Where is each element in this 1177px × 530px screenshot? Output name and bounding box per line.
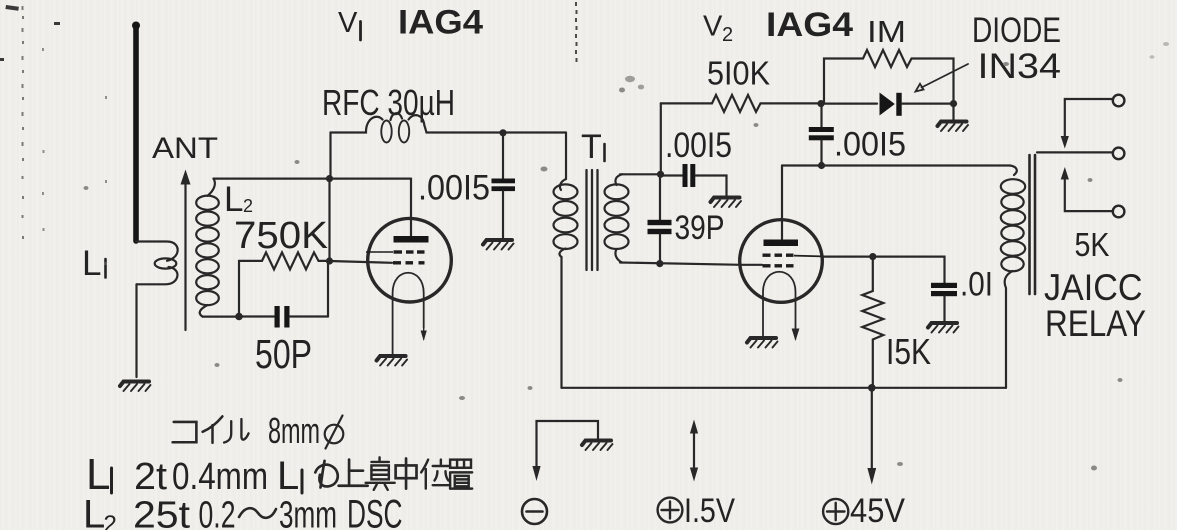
wire RFC to T1 <box>565 133 567 180</box>
svg-text:I.5V: I.5V <box>684 492 735 530</box>
wire 510K drop <box>660 103 662 174</box>
wire T1 sec bottom to V2 grid <box>620 263 762 265</box>
svg-text:L: L <box>224 180 243 219</box>
wire plate drop <box>410 179 412 236</box>
wire V2 screen out <box>822 257 945 283</box>
svg-text:0.2: 0.2 <box>199 495 236 530</box>
antenna rod <box>132 22 140 242</box>
coil L1 <box>136 242 178 285</box>
V1 grid dashes row1 <box>366 251 425 253</box>
svg-text:JAICC: JAICC <box>1044 267 1143 308</box>
bottom note line1: coil 8mm dia (Japanese drawn) <box>173 416 249 442</box>
svg-text:.0I: .0I <box>960 266 993 304</box>
capacitor .01 <box>931 283 957 322</box>
svg-text:I5K: I5K <box>886 331 931 372</box>
wire T1 primary bottom to bus <box>560 257 562 388</box>
svg-text:ANT: ANT <box>152 132 218 165</box>
ANT arrow <box>181 170 191 331</box>
wire down to bypass cap <box>502 133 504 178</box>
svg-text:25t: 25t <box>133 495 190 530</box>
resistor 510K <box>661 95 821 112</box>
wire 50P right leg up <box>327 261 329 317</box>
svg-text:8mm: 8mm <box>268 410 320 451</box>
svg-text:T: T <box>581 128 602 166</box>
wire node down to grid node <box>328 179 330 261</box>
relay contacts <box>1037 95 1124 218</box>
node grid <box>326 257 333 264</box>
svg-text:L: L <box>83 493 105 530</box>
node screen/15K <box>869 253 876 260</box>
svg-text:.00I5: .00I5 <box>834 126 906 164</box>
coil L2 <box>196 179 219 317</box>
wire L2 top to plate node <box>214 178 412 180</box>
tube V2 envelope <box>740 220 823 303</box>
wire L1 to ground <box>135 284 137 377</box>
svg-text:DIODE: DIODE <box>972 11 1061 50</box>
transformer T1 primary <box>554 179 578 257</box>
node 39P bottom <box>656 260 663 267</box>
wave dash <box>239 508 276 518</box>
wire diode right to ground <box>952 104 954 120</box>
wire T1 sec top <box>620 173 661 175</box>
capacitor .0015 (grid series) <box>661 164 727 196</box>
diameter symbol <box>325 416 344 449</box>
ground (antenna) <box>120 382 151 392</box>
T1 core <box>587 170 598 270</box>
svg-text:0.4mm: 0.4mm <box>172 456 268 498</box>
node diode left <box>817 100 824 107</box>
V2 filament <box>763 272 799 341</box>
svg-text:L: L <box>277 454 299 498</box>
relay coil 5K <box>1001 166 1025 388</box>
node RFC / bypass cap <box>499 129 506 136</box>
wire 39P drop <box>659 174 661 220</box>
ground (B-) <box>582 441 613 451</box>
tube V1 envelope <box>368 218 452 302</box>
resistor 15K <box>862 257 883 388</box>
svg-text:39P: 39P <box>675 209 725 247</box>
capacitor .0015 (det) <box>809 104 834 166</box>
label +1.5V <box>658 498 683 523</box>
bottom bus wire <box>562 387 1007 389</box>
ground (grid cap) <box>711 198 742 208</box>
annotation arrow to diode <box>916 64 969 92</box>
svg-text:45V: 45V <box>850 492 905 530</box>
page fold dotted line top middle <box>575 2 578 62</box>
wire V2 plate drop <box>781 166 783 240</box>
svg-text:.00I5: .00I5 <box>665 126 732 165</box>
svg-text:RFC 30µH: RFC 30µH <box>322 82 455 123</box>
svg-text:2: 2 <box>243 196 253 216</box>
wire RFC left drop <box>329 133 331 179</box>
B- pickoff: ground wire <box>532 421 598 481</box>
node 15K bottom / 45V <box>868 384 876 392</box>
wire L2 bottom <box>203 316 240 318</box>
ground (diode) <box>938 122 969 132</box>
node diode right <box>950 100 957 107</box>
V1 plate <box>394 236 429 243</box>
svg-text:2: 2 <box>104 511 117 530</box>
node L2 bottom <box>235 313 243 321</box>
smudges <box>84 42 1170 471</box>
V1 grid dashes row2 <box>393 261 425 264</box>
node junction (grid top) <box>326 175 333 182</box>
svg-text:5K: 5K <box>1075 226 1110 263</box>
V1 filament <box>393 273 427 354</box>
label +45V <box>823 499 848 524</box>
svg-text:V: V <box>338 7 358 39</box>
ground (bypass cap) <box>483 240 514 250</box>
RFC choke <box>331 113 567 142</box>
V2 grid dashes row1 <box>763 255 823 256</box>
resistor 750K <box>239 252 330 269</box>
svg-text:IN34: IN34 <box>978 47 1062 86</box>
1.5V double arrow <box>690 420 698 482</box>
node sec top <box>657 171 664 178</box>
V2 plate <box>764 240 799 247</box>
svg-text:V: V <box>703 11 723 43</box>
45V feed arrow <box>867 388 876 485</box>
V2 grid dashes row2 <box>763 264 794 267</box>
ground (V1 filament) <box>377 356 408 366</box>
wire det node to relay <box>782 164 1010 166</box>
capacitor .0015 (V1 plate bypass) <box>492 179 516 239</box>
ground (V2 filament) <box>747 338 778 348</box>
dark top-left marks <box>0 5 60 61</box>
wire grid into V1 <box>330 261 393 263</box>
resistor 1M <box>824 50 954 104</box>
diode 1N34 <box>821 93 954 116</box>
svg-text:RELAY: RELAY <box>1045 303 1146 344</box>
svg-text:.00I5: .00I5 <box>418 169 490 208</box>
svg-text:L: L <box>82 244 101 283</box>
svg-text:IAG4: IAG4 <box>398 4 483 42</box>
node det out <box>818 162 825 169</box>
svg-text:50P: 50P <box>255 331 312 377</box>
capacitor 39P <box>648 220 672 264</box>
svg-text:IAG4: IAG4 <box>766 6 853 44</box>
svg-text:5I0K: 5I0K <box>707 55 770 92</box>
svg-text:DSC: DSC <box>347 493 403 530</box>
ground (.01) <box>928 323 959 333</box>
relay core <box>1030 155 1036 294</box>
svg-text:2: 2 <box>722 24 733 46</box>
capacitor 50P <box>239 306 328 328</box>
B- circle symbol <box>522 499 547 524</box>
svg-text:IM: IM <box>867 14 906 49</box>
transformer T1 secondary <box>605 174 629 262</box>
wire 750K left leg <box>238 261 240 317</box>
svg-text:2t: 2t <box>134 456 167 498</box>
svg-text:3mm: 3mm <box>279 495 337 530</box>
svg-text:750K: 750K <box>234 215 328 257</box>
